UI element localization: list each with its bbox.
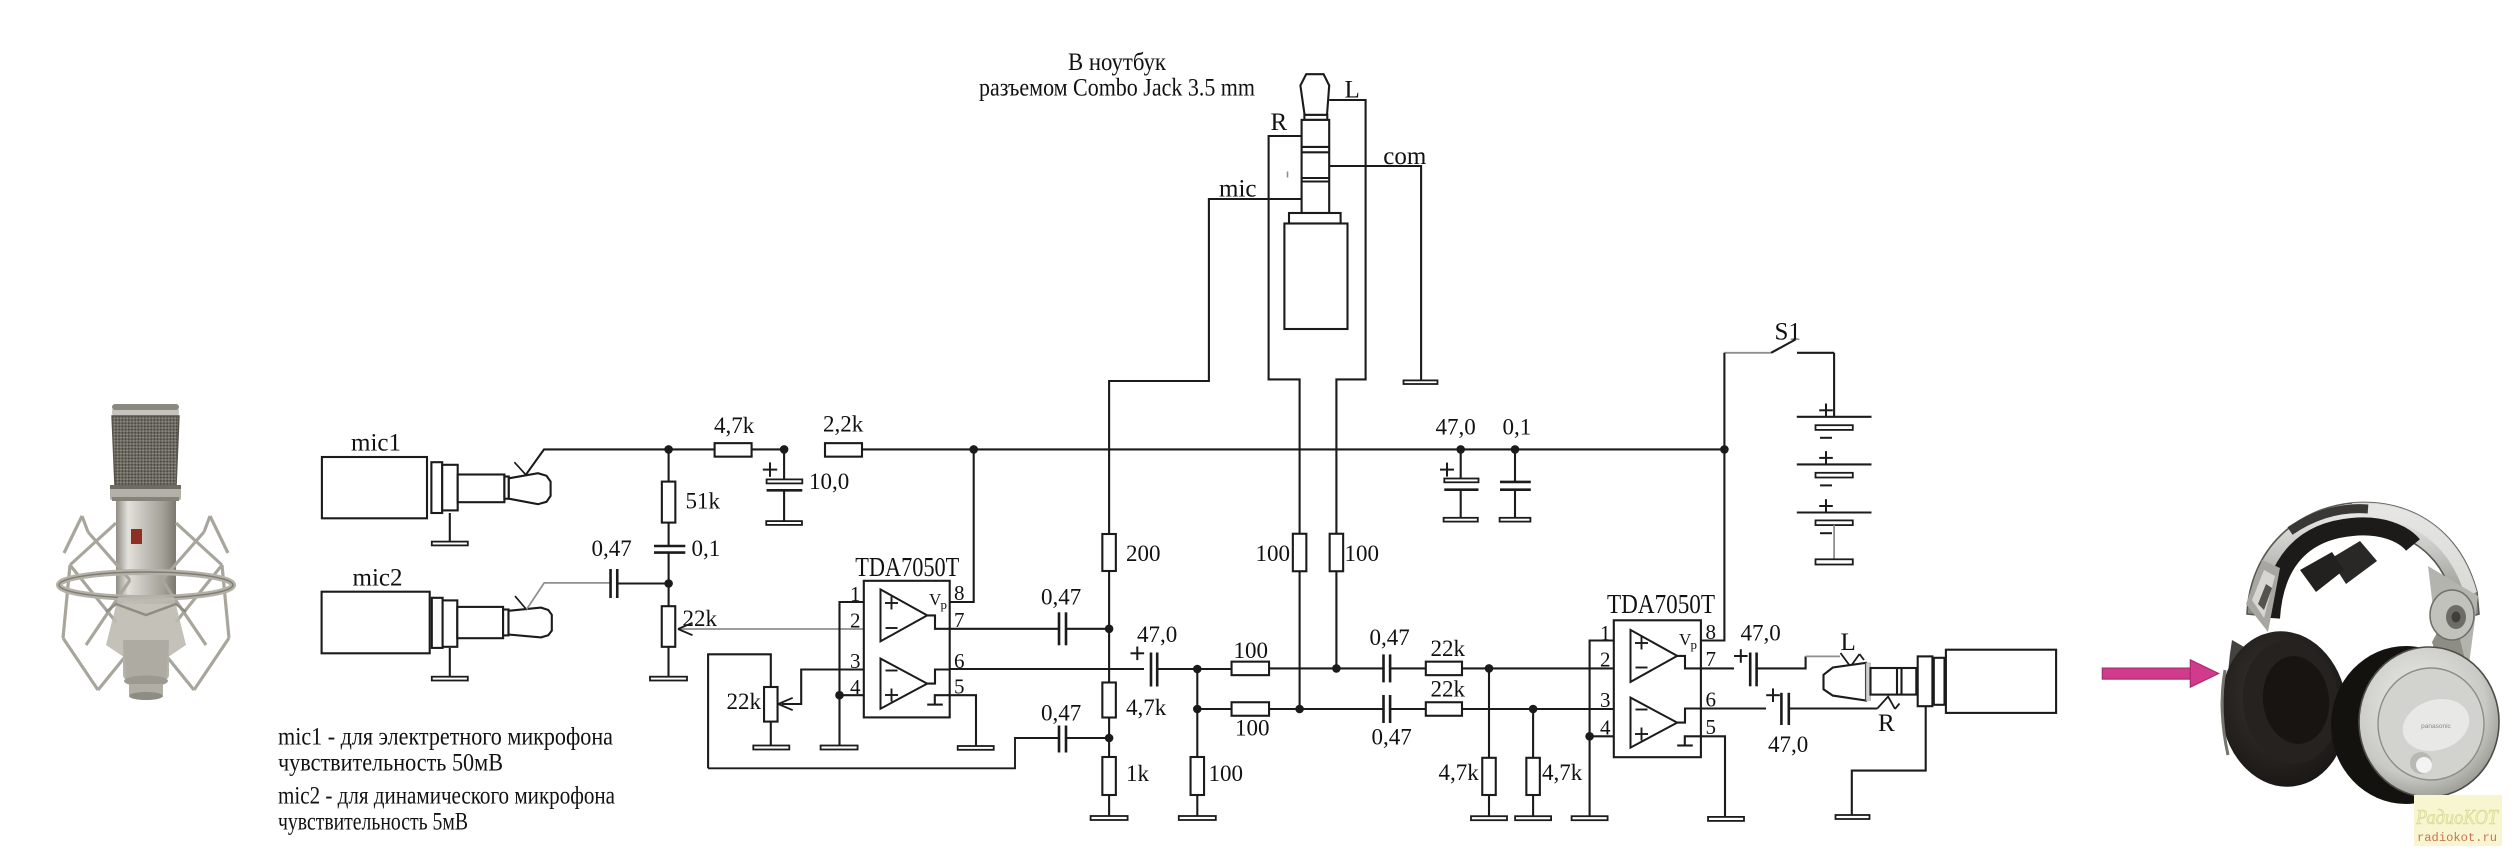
wire out L (1757, 656, 1806, 668)
wire U2 pin5 (1701, 736, 1725, 817)
svg-text:2: 2 (850, 609, 861, 633)
potentiometer 22k feedback (764, 687, 778, 722)
wire 200 to node (1108, 570, 1110, 628)
headphone plug ring line 1 (1896, 668, 1898, 695)
wire 4,7k to node2 (1108, 718, 1110, 739)
resistor 100 upper row (1232, 662, 1270, 676)
resistor 100 vertical (1191, 757, 1205, 795)
switch S1 blade (1771, 340, 1795, 353)
ground U2 pin5 (1708, 817, 1744, 821)
svg-text:R: R (1271, 109, 1288, 136)
wire lower row b (1269, 708, 1384, 710)
node rail-0,1 (1511, 445, 1520, 454)
node mic2 join (664, 579, 673, 588)
resistor 4,7k top (715, 443, 752, 457)
connector XS1 ring line 2 (1302, 151, 1330, 153)
svg-text:47,0: 47,0 (1137, 622, 1177, 647)
node bias lower (1529, 705, 1538, 714)
wire battery negative (1833, 525, 1835, 559)
op-amp U1.A output jog (927, 615, 950, 628)
svg-text:чувствительность 50мВ: чувствительность 50мВ (278, 749, 503, 776)
svg-text:4,7k: 4,7k (714, 413, 755, 438)
resistor 200 (1102, 534, 1116, 571)
wire S1 right (1797, 352, 1834, 354)
wire 51k top (668, 449, 670, 481)
svg-text:mic1: mic1 (351, 430, 401, 457)
capacitor 0,1 mic (654, 545, 685, 548)
svg-text:2,2k: 2,2k (823, 412, 864, 437)
wire U1 pin7 (950, 628, 1059, 630)
wire mic1 ground (449, 513, 451, 542)
capacitor 0,47 feedback (1058, 726, 1061, 753)
svg-text:p: p (941, 597, 948, 612)
node feedback join (1105, 734, 1114, 743)
op-amp U2.A triangle (1631, 630, 1678, 682)
wire rail segment 1 (669, 448, 715, 450)
svg-text:200: 200 (1126, 541, 1161, 566)
wire headphone common (1852, 706, 1926, 815)
node rail-51k (664, 445, 673, 454)
svg-text:L: L (1841, 629, 1856, 656)
svg-text:0,47: 0,47 (592, 536, 632, 561)
node B lower (1193, 705, 1202, 714)
headphone plug tip (1824, 663, 1867, 701)
U1 pin5 internal tie (935, 695, 950, 704)
ground 47,0 supply (1444, 518, 1478, 522)
resistor 100 left channel R (1293, 534, 1307, 572)
node rail-47,0 (1456, 445, 1465, 454)
ground 0,1 supply (1500, 518, 1531, 522)
svg-text:22k: 22k (683, 606, 718, 631)
wire 1k to ground (1108, 795, 1110, 816)
wire rail segment 3 (862, 448, 974, 450)
node U1 pin1-pin4 (835, 691, 844, 700)
connector XS1 ring line 4 (1302, 180, 1330, 182)
wire bias left ground (1488, 795, 1490, 816)
svg-text:4,7k: 4,7k (1126, 695, 1167, 720)
node rail-pin8 drop (969, 445, 978, 454)
hook mic2 (515, 596, 527, 610)
wire feedback bottom (708, 738, 1059, 768)
wire U1 pin4 (840, 694, 864, 696)
svg-text:0,47: 0,47 (1041, 700, 1081, 725)
ground com (1404, 380, 1438, 384)
headphone plug collar 2 (1934, 658, 1945, 705)
wire lower row d (1462, 708, 1614, 710)
wire 51k to 0,1 (668, 523, 670, 546)
wire 100 right down (1335, 571, 1337, 668)
connector mic2 collar ring 1 (432, 598, 443, 648)
connector XS1 shaft (1302, 120, 1330, 213)
svg-text:22k: 22k (727, 689, 762, 714)
headphone plug collar 1 (1918, 656, 1933, 706)
svg-text:1k: 1k (1126, 761, 1150, 786)
capacitor 47,0 out R electrolytic (1701, 707, 1766, 709)
svg-text:10,0: 10,0 (809, 469, 849, 494)
op-amp U1.A triangle (881, 589, 928, 641)
wire node A down (1196, 669, 1198, 709)
svg-text:47,0: 47,0 (1436, 415, 1476, 440)
ground bias left (1471, 816, 1507, 820)
wire S1 to rail (1723, 353, 1725, 450)
resistor 51k (662, 482, 676, 523)
potentiometer 22k mic (662, 606, 676, 647)
connector XS1 neck (1304, 115, 1327, 120)
svg-text:R: R (1878, 710, 1895, 737)
connector mic1 neck (504, 477, 508, 499)
wire 10,0 top (783, 449, 785, 479)
svg-text:разъемом Combo Jack 3.5 mm: разъемом Combo Jack 3.5 mm (979, 75, 1255, 102)
capacitor 10,0 electrolytic (763, 469, 777, 471)
hook mic1 (514, 462, 526, 475)
svg-text:0,1: 0,1 (1503, 415, 1532, 440)
arrow to headphones (2102, 660, 2218, 687)
arrow pot2 wiper (778, 698, 793, 704)
op-amp U2.B output jog (1677, 709, 1701, 723)
wire pot2 bottom (770, 722, 772, 746)
wire mic pin (1109, 199, 1302, 535)
wire U1 pin1 (840, 602, 864, 695)
svg-text:mic2 - для динамического микро: mic2 - для динамического микрофона (278, 783, 615, 810)
svg-text:S1: S1 (1775, 319, 1801, 346)
connector XS1 combo jack 3.5mm tip (1300, 74, 1329, 115)
node A upper (1193, 665, 1202, 674)
wire com pin (1329, 166, 1421, 380)
wire node to pot (668, 584, 670, 607)
wire node2 to 1k (1108, 738, 1110, 757)
ground U1 pin5 (958, 746, 994, 750)
wire out R (1789, 707, 1878, 709)
capacitor 0,1 supply (1514, 449, 1516, 482)
wire upper row b (1269, 667, 1384, 669)
hook L out (1841, 653, 1860, 667)
wire S1 left (1724, 352, 1771, 354)
capacitor 47,0 supply (1460, 449, 1462, 478)
ground U2 left (1572, 816, 1608, 820)
wire lower row a (1197, 708, 1231, 710)
wire 100 vertical ground (1196, 795, 1198, 816)
svg-text:panasonic: panasonic (2421, 723, 2451, 730)
wire rail segment 5 (1461, 448, 1515, 450)
capacitor 0,47 mic2 (609, 569, 612, 598)
wire pot1 bottom (667, 647, 669, 677)
connector mic1 collar ring 1 (431, 462, 442, 513)
connector mic2 collar ring 2 (443, 600, 458, 646)
capacitor 0,47 out1 (1058, 612, 1061, 645)
U2 pin5 internal tie (1685, 736, 1701, 745)
svg-text:mic2: mic2 (353, 565, 403, 592)
connector mic2 plug tip (509, 608, 552, 638)
ground U1 left (821, 746, 858, 750)
wire pot2 top loop (708, 654, 771, 768)
resistor 22k upper (1426, 662, 1462, 676)
wire U1 pins1-4 ground (838, 695, 840, 745)
resistor 2,2k (825, 443, 862, 457)
svg-text:22k: 22k (1431, 676, 1466, 701)
hook R out (1877, 697, 1895, 709)
svg-text:0,47: 0,47 (1041, 584, 1081, 609)
capacitor 0,47 lower (1382, 695, 1385, 723)
ground headphone (1836, 815, 1870, 819)
wire feedback cap to node (1066, 737, 1109, 739)
connector mic1 shaft (458, 475, 505, 503)
wire U1 pin3 (782, 670, 864, 705)
wire rail segment 4 (974, 448, 1461, 450)
svg-text:РадиоКОТ: РадиоКОТ (2415, 805, 2499, 829)
wire out L gray (1806, 655, 1840, 657)
wire R pin (1269, 136, 1302, 534)
wire node B down (1196, 709, 1198, 757)
node bias upper (1485, 664, 1494, 673)
wire U1 pin8 to rail (950, 449, 974, 602)
svg-text:radiokot.ru: radiokot.ru (2417, 832, 2497, 845)
wire U1 pin6 (950, 668, 1144, 670)
microphone photo (59, 404, 233, 700)
wire 100 left down (1299, 571, 1301, 709)
headphone plug tip band (1866, 663, 1870, 700)
op-amp U2 box (1614, 620, 1701, 757)
ground 10,0 (766, 521, 802, 525)
op-amp U2.A output jog (1677, 656, 1701, 669)
wire cap to node (617, 582, 668, 584)
svg-text:100: 100 (1235, 716, 1270, 741)
wire 0,1 to node (668, 553, 670, 584)
svg-text:0,47: 0,47 (1370, 625, 1410, 650)
wire U2 pin4 (1590, 735, 1614, 737)
svg-text:22k: 22k (1431, 636, 1466, 661)
svg-text:В ноутбук: В ноутбук (1068, 49, 1167, 76)
svg-text:47,0: 47,0 (1768, 732, 1808, 757)
node rail-battery (1720, 445, 1729, 454)
node R join (1295, 705, 1304, 714)
wire upper row c (1390, 667, 1426, 669)
battery GB1 cell 1 (1797, 416, 1872, 418)
wire L pin (1329, 100, 1365, 534)
svg-text:4,7k: 4,7k (1542, 760, 1583, 785)
svg-text:0,1: 0,1 (692, 536, 721, 561)
wire rail segment 6 (1515, 448, 1724, 450)
battery GB1 cell 2 (1797, 463, 1872, 465)
wire U1 pin5 (950, 695, 976, 746)
svg-text:3: 3 (1600, 688, 1611, 712)
connector mic1 body (322, 457, 427, 518)
node rail-10,0 (780, 445, 789, 454)
wire mic2 ground (449, 648, 451, 677)
resistor 4,7k mid (1102, 683, 1116, 718)
resistor 100 right channel L (1330, 534, 1344, 572)
wire bias upper down (1488, 668, 1490, 757)
wire upper row a (1197, 668, 1231, 670)
svg-text:2: 2 (1600, 648, 1611, 672)
node mic out (1105, 625, 1114, 634)
resistor 100 lower row (1232, 702, 1270, 716)
svg-text:0,47: 0,47 (1372, 725, 1412, 750)
capacitor 47,0 mid electrolytic (1131, 652, 1145, 654)
wire mic2 to cap (527, 583, 611, 610)
resistor 4,7k bias left (1482, 758, 1496, 795)
ground battery (1816, 559, 1853, 564)
watermark radiokot (2414, 795, 2502, 846)
svg-text:47,0: 47,0 (1741, 621, 1781, 646)
svg-text:p: p (1691, 637, 1698, 652)
wire bias right ground (1532, 795, 1534, 816)
wire U2 pin1 (1590, 641, 1614, 737)
connector XS1 ring line 3 (1302, 177, 1330, 179)
resistor 1k (1102, 757, 1116, 795)
svg-text:TDA7050T: TDA7050T (1607, 589, 1715, 619)
wire upper row d (1462, 667, 1614, 669)
capacitor 0,47 upper (1382, 654, 1385, 682)
svg-text:100: 100 (1345, 541, 1380, 566)
svg-text:чувствительность 5мВ: чувствительность 5мВ (278, 808, 468, 835)
wire S1 to battery (1833, 353, 1835, 417)
wire mic1 to rail (526, 449, 669, 474)
op-amp U1.B output jog (927, 670, 950, 684)
tick mark (1287, 172, 1289, 178)
node U2 pin1-pin4 (1585, 732, 1594, 741)
ground bias right (1515, 816, 1551, 820)
connector XS1 ring line 1 (1302, 146, 1330, 148)
ground 100 vertical (1179, 816, 1216, 820)
headphones photo (2212, 502, 2499, 804)
op-amp U1 box (864, 581, 950, 718)
svg-text:100: 100 (1256, 541, 1291, 566)
svg-text:mic1 - для электретного микроф: mic1 - для электретного микрофона (278, 724, 613, 751)
wire rail segment 2 (751, 448, 784, 450)
headphone plug body (1946, 650, 2056, 713)
resistor 22k lower (1426, 702, 1462, 716)
wire cap out1 to node (1066, 628, 1109, 630)
op-amp U2.B triangle (1631, 698, 1678, 748)
resistor 4,7k bias right (1526, 758, 1540, 795)
wire cap to node A (1157, 668, 1197, 670)
svg-text:51k: 51k (686, 489, 721, 514)
connector mic1 collar ring 2 (442, 465, 458, 511)
svg-text:4,7k: 4,7k (1439, 760, 1480, 785)
op-amp U1.B triangle (881, 659, 928, 709)
svg-text:TDA7050T: TDA7050T (855, 552, 959, 582)
headphone plug shaft (1871, 668, 1917, 695)
connector mic2 shaft (457, 607, 503, 638)
connector mic2 body (322, 592, 430, 654)
wire lower row c (1390, 708, 1426, 710)
connector XS1 body (1284, 224, 1347, 330)
svg-text:100: 100 (1209, 761, 1244, 786)
battery GB1 cell 3 (1797, 511, 1872, 513)
arrow pot1 wiper (678, 628, 864, 630)
connector mic1 plug tip (509, 473, 551, 504)
headphone plug ring line 2 (1900, 668, 1902, 695)
wire node to 4,7k (1108, 629, 1110, 683)
ground 1k (1091, 816, 1128, 820)
wire U2 pins1-4 ground (1589, 736, 1591, 816)
connector mic2 neck (503, 610, 508, 636)
connector XS1 collar (1289, 213, 1341, 224)
wire U2 pin8 (1701, 449, 1725, 640)
wire bias lower down (1532, 709, 1534, 758)
ground mic1 (432, 542, 468, 546)
ground pot1 (650, 677, 687, 681)
ground pot2 (753, 746, 789, 750)
svg-text:100: 100 (1234, 638, 1269, 663)
node L join (1332, 664, 1341, 673)
ground mic2 (432, 677, 468, 681)
capacitor 47,0 out L electrolytic (1701, 667, 1734, 669)
